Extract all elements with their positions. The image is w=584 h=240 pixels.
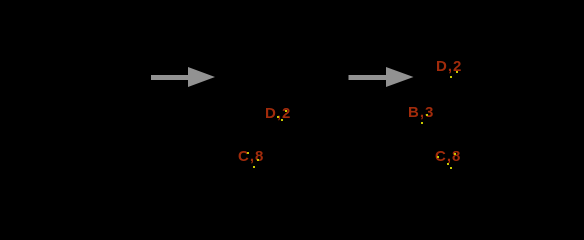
payoff label D,2 (middle tree) (265, 106, 291, 121)
payoff label C,8 (middle tree) (238, 149, 264, 164)
payoff label D,2 (right tree, top) (436, 59, 462, 74)
payoff label C,8 (right tree) (435, 149, 461, 164)
payoff label B,3 (right tree) (408, 105, 434, 120)
step arrow 1 (between tree 1 and tree 2) (0, 0, 584, 192)
compression artifact specks (285, 110, 287, 112)
step arrow 2 (between tree 2 and tree 3) (349, 67, 414, 87)
